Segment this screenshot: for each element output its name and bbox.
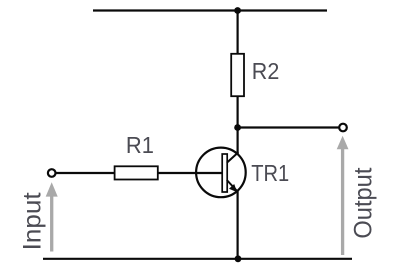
input terminal (open circle) (48, 169, 56, 177)
svg-text:R1: R1 (126, 132, 154, 158)
resistor R1 (115, 166, 158, 179)
input arrow (gray, pointing up) (46, 182, 58, 251)
transistor base bar (222, 154, 227, 192)
svg-text:R2: R2 (252, 58, 279, 84)
junction dot on supply rail (234, 7, 241, 14)
resistor R2 (231, 54, 244, 96)
wire: R1 to transistor base (158, 172, 223, 174)
svg-text:Output: Output (350, 168, 378, 239)
wire: output branch (238, 126, 339, 128)
transistor emitter diagonal (227, 180, 237, 191)
transistor collector diagonal (227, 152, 239, 163)
wire: bottom ground rail (43, 258, 352, 260)
emitter arrowhead (229, 184, 237, 192)
wire: top supply rail (93, 9, 327, 11)
wire: supply rail to R2 top (237, 11, 239, 55)
output terminal (open circle) (339, 124, 347, 132)
wire: input terminal to R1 (56, 172, 115, 174)
svg-text:TR1: TR1 (251, 160, 289, 186)
svg-text:Input: Input (19, 192, 47, 250)
output arrow (gray, pointing up) (337, 136, 349, 255)
transistor TR1 circle (196, 148, 246, 198)
wire: emitter to ground rail (237, 191, 239, 259)
node: collector output junction (234, 124, 241, 131)
junction dot on ground rail (235, 255, 242, 262)
wire: R2 bottom to collector (237, 96, 239, 153)
